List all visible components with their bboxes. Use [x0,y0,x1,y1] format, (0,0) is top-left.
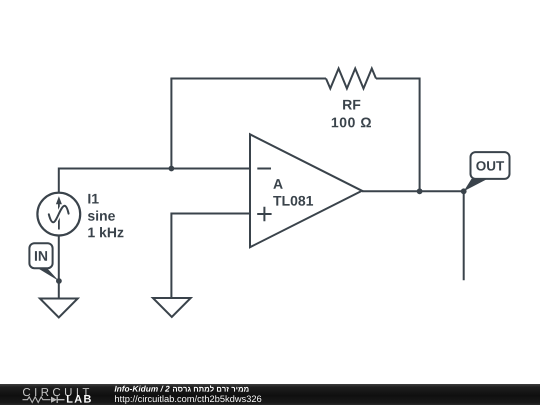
footer logo LAB wordmark [67,395,91,403]
footer logo resistor squiggle [23,397,51,403]
flag OUT box [471,152,510,179]
junction dot feedback/output [417,188,423,194]
current source I1 sine wave halo [49,206,69,223]
wire: from I1 bottom down to ground [58,235,60,298]
wire: input net horizontal to op-amp inverting input [59,168,250,170]
wire: feedback right vertical down to output net [419,78,421,192]
node OUT junction dot [461,188,467,194]
current source I1 sine wave [49,206,69,223]
node IN junction dot [56,278,62,284]
label I1 1 kHz [88,227,123,237]
label I1 [88,194,98,204]
footer url text [115,395,261,404]
footer title text Info-Kidum / 2 [115,386,170,392]
op-amp inverting input minus symbol [257,168,271,170]
current source I1 arrowhead [56,196,62,204]
wire: output net horizontal from op-amp tip [362,190,464,192]
flag IN label [35,251,47,261]
current source I1 arrow shaft [58,204,60,230]
junction dot node A (inverting input / feedback) [169,166,175,172]
footer logo CIRCUIT wordmark [23,388,89,396]
wire: feedback top rail right segment [376,78,420,80]
ground symbol middle (op-amp + input) [153,298,191,317]
label op-amp designator A [273,179,282,189]
op-amp non-inverting input plus symbol [257,207,271,221]
label op-amp part TL081 [273,196,313,206]
flag OUT pointer wedge [464,179,488,191]
op-amp A (TL081) triangle body [250,134,362,247]
wire: stub down to I1 top [58,168,60,194]
wire: feedback left vertical (node A up to top rail) [170,79,172,169]
footer black bar [0,384,540,405]
ground symbol left (below I1) [40,299,78,318]
label RF [343,100,360,110]
label I1 sine [88,210,115,220]
flag OUT label [476,161,504,171]
current source I1 circle [37,193,80,236]
wire: op-amp non-inverting input horizontal [171,213,250,215]
resistor RF zigzag body [326,69,376,89]
label value 100 ohm [332,118,371,128]
wire: output vertical drop [463,191,465,280]
footer logo diode symbol [51,397,57,403]
wire: feedback top rail left segment [170,78,326,80]
footer title hebrew text [173,385,249,391]
flag IN pointer wedge [37,268,59,282]
flag IN box [29,243,52,268]
wire: non-inverting input down to middle ground [170,213,172,299]
